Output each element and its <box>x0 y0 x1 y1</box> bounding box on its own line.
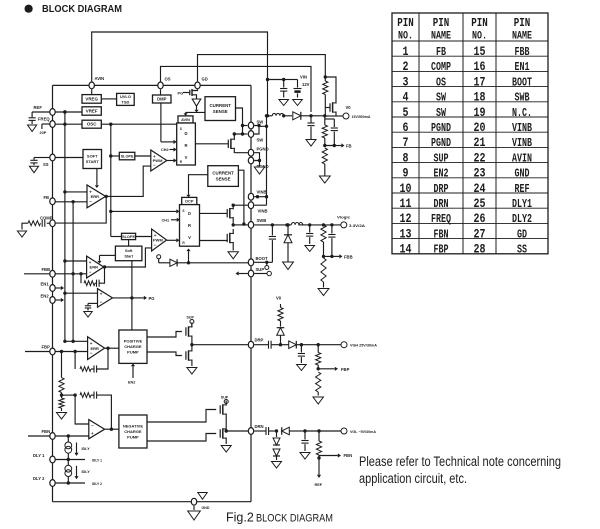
terminal boot tp <box>265 262 269 269</box>
wire ERR1 out <box>105 195 108 198</box>
svg-text:27: 27 <box>474 226 486 241</box>
svg-text:GD: GD <box>517 227 527 241</box>
inductor L1 <box>268 113 284 115</box>
wire M2 drain <box>232 204 249 207</box>
pin VGL <box>341 428 376 434</box>
svg-text:VREF: VREF <box>86 109 98 114</box>
svg-text:GND: GND <box>515 167 530 181</box>
arrow FB tap <box>334 143 351 148</box>
pin DLY2 <box>33 476 55 486</box>
wire AVIN loop to VIN <box>92 32 268 81</box>
transistor M1 <box>228 135 234 153</box>
arrow PG label <box>132 296 155 301</box>
node SW ext <box>282 114 292 117</box>
transistor P-drv neg <box>220 401 226 419</box>
wire pump2 N gates <box>147 434 216 442</box>
wire ERR3 out <box>105 347 119 350</box>
arrow EN2 <box>56 298 65 302</box>
pin COMP <box>40 216 55 227</box>
label V0 source <box>276 296 282 301</box>
wire pump2 gnd <box>225 443 227 445</box>
svg-text:21: 21 <box>474 135 486 150</box>
svg-text:16: 16 <box>474 59 486 74</box>
wire ramp to DRV2 <box>111 209 180 213</box>
block SOFT START <box>83 150 102 169</box>
svg-text:9: 9 <box>403 166 409 181</box>
svg-text:NO.: NO. <box>398 30 413 42</box>
wire FBN ext <box>28 435 50 437</box>
resistor RD1 <box>59 378 64 393</box>
wire M1 drain <box>233 132 243 135</box>
svg-text:EN1: EN1 <box>41 281 50 286</box>
label VIN 12V <box>300 74 310 87</box>
ground battery <box>293 100 303 106</box>
pin V0 <box>343 105 371 119</box>
wire OS to DMP <box>160 89 162 95</box>
ground VGL cap <box>300 453 310 460</box>
wire DMP down <box>160 103 162 142</box>
svg-text:application circuit, etc.: application circuit, etc. <box>359 471 467 486</box>
wire SS ext <box>34 157 50 159</box>
ground pump2 <box>221 446 231 453</box>
svg-text:AVIN: AVIN <box>512 151 532 165</box>
svg-text:18: 18 <box>474 90 486 105</box>
svg-text:FBB: FBB <box>42 267 51 272</box>
svg-text:BLOCK DIAGRAM: BLOCK DIAGRAM <box>256 513 333 525</box>
arrow FBB tap <box>332 254 353 259</box>
block DRV2 <box>180 205 200 247</box>
svg-text:SS: SS <box>517 243 527 257</box>
svg-text:VINB: VINB <box>258 209 268 214</box>
op-amp ERR1 <box>87 185 106 208</box>
svg-text:11: 11 <box>400 196 412 211</box>
capacitor FB speedup <box>325 119 338 147</box>
feedback NEG RC <box>73 392 113 431</box>
svg-text:EN2: EN2 <box>434 167 449 181</box>
wire DLY1 <box>56 458 103 463</box>
resistor COMP <box>22 221 41 230</box>
svg-text:12V: 12V <box>302 82 310 87</box>
svg-text:−: − <box>90 351 93 356</box>
svg-text:6: 6 <box>403 120 409 135</box>
transistor PG <box>178 89 198 99</box>
svg-text:SUP: SUP <box>434 151 449 165</box>
pin SWB <box>248 218 266 229</box>
op-amp PWM2 <box>152 229 167 251</box>
block OCP <box>182 197 197 204</box>
transistor N-drv pos <box>186 341 192 365</box>
svg-text:DLY 1: DLY 1 <box>33 453 45 458</box>
svg-text:DRN: DRN <box>434 197 449 211</box>
wire REF to VREF <box>56 110 83 113</box>
svg-text:SW: SW <box>436 91 447 105</box>
svg-text:−: − <box>100 299 103 304</box>
svg-text:28: 28 <box>474 242 486 257</box>
svg-text:REF: REF <box>515 182 530 196</box>
wire VINB riser <box>254 125 268 206</box>
svg-text:REF: REF <box>34 105 43 110</box>
block NEGATIVE CHARGE PUMP <box>119 415 147 448</box>
svg-text:FBN: FBN <box>434 227 449 241</box>
pin Vlogic <box>337 214 365 228</box>
svg-text:SENSE: SENSE <box>216 177 231 182</box>
svg-text:FBP: FBP <box>434 243 449 257</box>
block VREG <box>82 95 101 104</box>
svg-text:CHARGE: CHARGE <box>124 344 142 349</box>
svg-text:−: − <box>154 242 157 247</box>
arrow DMP to DRV1 <box>161 140 177 144</box>
pin SS <box>43 154 55 167</box>
svg-text:DLY 2: DLY 2 <box>33 476 45 481</box>
svg-text:DRP: DRP <box>255 338 264 343</box>
resistor FBP lower <box>316 372 321 396</box>
svg-text:FBB: FBB <box>344 254 353 259</box>
svg-text:SWB: SWB <box>257 218 267 223</box>
svg-text:ERR: ERR <box>91 194 100 199</box>
svg-text:IDLY 2: IDLY 2 <box>92 482 102 486</box>
wire FBP ext <box>25 351 50 353</box>
svg-text:EN1: EN1 <box>515 60 530 74</box>
svg-text:EN2: EN2 <box>128 381 135 385</box>
pin EN2 <box>41 293 56 303</box>
svg-text:FB: FB <box>346 144 352 149</box>
wire pump P gates <box>147 332 182 338</box>
svg-text:PUMP: PUMP <box>127 435 139 440</box>
wire SWB int <box>233 224 248 226</box>
wire DRV2 gate M3 <box>200 240 228 242</box>
resistor FBP upper <box>316 345 321 371</box>
svg-text:Fig.2: Fig.2 <box>226 511 254 525</box>
svg-text:8: 8 <box>403 150 409 165</box>
svg-text:NO.: NO. <box>472 30 487 42</box>
svg-text:CH2: CH2 <box>161 148 169 152</box>
svg-text:FREQ: FREQ <box>38 117 50 122</box>
wire CS1 right to SW <box>236 108 248 136</box>
arrow into AVIN box <box>194 106 198 112</box>
wire FBB ext <box>24 273 50 275</box>
svg-text:15V/500mA: 15V/500mA <box>352 115 371 119</box>
ground Vlogic cap <box>305 246 315 252</box>
pin SW1 <box>248 119 263 129</box>
svg-text:VINB: VINB <box>512 121 532 135</box>
capacitor bootstrap <box>269 225 276 262</box>
svg-text:DMP: DMP <box>157 96 167 101</box>
wire M3 source <box>232 247 234 251</box>
block AVIN drv <box>178 116 193 123</box>
pin BOOT <box>248 256 268 266</box>
wire COMP ext <box>47 222 50 224</box>
pin table <box>392 13 548 257</box>
svg-text:PG: PG <box>149 296 155 301</box>
pin VGH <box>341 342 377 348</box>
svg-text:7: 7 <box>403 135 409 150</box>
svg-text:25: 25 <box>474 196 486 211</box>
transistor N-drv neg <box>220 419 226 443</box>
svg-text:OCP: OCP <box>185 198 194 203</box>
arrow FBN tap <box>319 453 352 458</box>
wire SWB rail <box>254 223 291 226</box>
wire pgcmp plus <box>65 292 98 294</box>
svg-text:CHARGE: CHARGE <box>124 429 142 434</box>
ground D2 <box>283 262 294 270</box>
svg-text:CURRENT: CURRENT <box>212 171 234 176</box>
terminal SUP pump2 <box>221 396 229 405</box>
diode D2 freewheel <box>284 223 292 261</box>
label CH2 arrow <box>161 147 177 152</box>
svg-text:3: 3 <box>403 74 409 89</box>
inductor L2 <box>291 223 309 225</box>
svg-text:Soft: Soft <box>125 249 133 253</box>
wire pwm2 out <box>167 238 180 242</box>
svg-text:N.C.: N.C. <box>512 106 532 120</box>
svg-text:BOOT: BOOT <box>512 75 532 89</box>
wire PG out <box>113 296 134 299</box>
svg-text:SUP: SUP <box>187 316 195 320</box>
svg-text:EN2: EN2 <box>41 293 50 298</box>
transistor Q1 pass PMOS <box>325 99 336 117</box>
svg-text:FB: FB <box>436 45 446 59</box>
node DRP junction <box>277 343 289 346</box>
resistor RD2 <box>59 398 64 411</box>
svg-text:AVIN: AVIN <box>95 76 105 81</box>
resistor VGH charge <box>278 304 283 327</box>
svg-text:23: 23 <box>474 166 486 181</box>
block DRV1 <box>177 123 196 165</box>
arrow EN2 to pump <box>128 363 135 384</box>
wire Q1 to V0 <box>325 115 343 118</box>
resistor FBB upper <box>321 225 326 258</box>
svg-text:DRN: DRN <box>255 424 264 429</box>
block UVLO TSD <box>117 93 135 105</box>
svg-text:20P: 20P <box>40 131 47 135</box>
svg-text:TSD: TSD <box>121 100 129 105</box>
battery VIN 12V <box>284 80 302 98</box>
block SLOPE <box>119 152 135 160</box>
ground pgcmp cap <box>84 312 92 318</box>
svg-text:26: 26 <box>474 211 486 226</box>
svg-text:START: START <box>86 159 100 164</box>
svg-text:PGND: PGND <box>431 121 451 135</box>
wire ERR4 out <box>105 428 119 430</box>
pin DRP <box>248 338 263 348</box>
pin PGND2 <box>248 157 268 169</box>
wire VREG-UVLO <box>101 98 116 100</box>
wire pump N gates <box>147 352 182 356</box>
diode D7 boot <box>170 259 248 266</box>
capacitor pgcmp <box>85 303 98 310</box>
wire VGL rail <box>305 429 341 432</box>
svg-text:3.3V/2A: 3.3V/2A <box>349 224 365 228</box>
node RD tap <box>60 393 75 399</box>
pin DLY1 <box>33 453 55 463</box>
caption Fig.2 <box>226 511 333 525</box>
svg-text:VGL −5V/30mA: VGL −5V/30mA <box>350 430 376 434</box>
pin SUP <box>248 267 264 277</box>
ground SS cap <box>29 166 38 173</box>
wire gate branch <box>325 77 336 99</box>
wire slope2-pwm2 <box>136 236 152 238</box>
svg-text:V0: V0 <box>346 105 352 110</box>
ground REF cap <box>28 125 37 132</box>
svg-text:R: R <box>184 143 187 148</box>
ground PGND <box>254 167 264 174</box>
svg-text:ERR: ERR <box>90 265 99 270</box>
svg-text:GD: GD <box>202 77 208 82</box>
node VIN rail top <box>266 78 286 81</box>
svg-text:SW: SW <box>257 138 264 143</box>
svg-text:10: 10 <box>400 181 412 196</box>
arrow to REF <box>315 458 323 487</box>
wire FBP to ERR3 <box>56 350 88 353</box>
svg-text:−: − <box>89 269 92 274</box>
svg-text:S: S <box>180 127 182 131</box>
pin FBB <box>42 267 56 277</box>
node pump2 out <box>225 429 249 432</box>
wire FBB to ERR2 <box>56 272 87 275</box>
svg-text:D: D <box>184 131 187 136</box>
svg-text:SOFT: SOFT <box>87 154 98 159</box>
wire pwm1 out <box>167 158 177 162</box>
pin DRN <box>248 424 263 434</box>
arrow EN1 <box>56 286 65 290</box>
diode D3 up <box>277 328 285 345</box>
svg-text:VINB: VINB <box>257 190 267 195</box>
wire slope-pwm1 <box>135 155 151 157</box>
capacitor VIN bypass <box>280 80 287 98</box>
ground FB divider <box>319 176 330 183</box>
svg-text:PWM: PWM <box>153 238 163 243</box>
svg-text:17: 17 <box>474 74 486 89</box>
block SLOPE2 <box>122 233 136 239</box>
block VREF <box>82 107 101 115</box>
node V0 rail <box>309 114 326 117</box>
svg-text:PIN: PIN <box>471 16 488 30</box>
svg-text:SW: SW <box>436 106 447 120</box>
wire CS2 left to OCP <box>189 175 208 193</box>
wire CS2 right <box>238 170 248 226</box>
transistor M2 <box>227 204 233 222</box>
wire pump1 gnd <box>191 365 193 367</box>
wire ERR2 plus <box>65 260 87 262</box>
block OSC <box>82 120 101 128</box>
block CURRENT SENSE 1 <box>205 97 236 121</box>
svg-text:R: R <box>188 223 191 228</box>
rail ramp bus <box>109 124 112 236</box>
ground V0 cap <box>306 140 316 147</box>
pin OS <box>158 77 171 89</box>
wire FB to ERR1 <box>56 200 88 203</box>
svg-text:4: 4 <box>403 90 409 105</box>
svg-text:PGND: PGND <box>431 136 451 150</box>
wire DRV2 gate M2 <box>200 212 228 214</box>
svg-text:14: 14 <box>400 242 412 257</box>
svg-text:D: D <box>188 211 191 216</box>
svg-text:UVLO: UVLO <box>120 94 131 99</box>
svg-text:SENSE: SENSE <box>213 109 228 114</box>
svg-text:BLOCK DIAGRAM: BLOCK DIAGRAM <box>42 3 122 15</box>
svg-text:PIN: PIN <box>514 16 531 30</box>
wire M1 source <box>234 152 248 154</box>
svg-text:AVIN: AVIN <box>181 118 190 122</box>
wire softstart-slope <box>111 155 120 157</box>
resistor pull-up GD <box>323 75 328 116</box>
feedback ERR2 RC <box>81 267 105 287</box>
arrow FBP tap <box>318 367 349 372</box>
wire SW pins to ext node <box>254 114 268 134</box>
svg-text:15: 15 <box>474 44 486 59</box>
pin VINB1 <box>248 190 266 201</box>
svg-text:PIN: PIN <box>397 16 414 30</box>
svg-text:2: 2 <box>403 59 409 74</box>
wire pump2 P gates <box>147 410 216 423</box>
svg-text:20: 20 <box>474 120 486 135</box>
svg-text:FREQ: FREQ <box>431 212 451 226</box>
rail REF bus <box>63 110 66 343</box>
wire VIN rail to inductor <box>266 80 269 118</box>
pin VINB2 <box>248 202 267 214</box>
block POSITIVE CHARGE PUMP <box>119 330 147 363</box>
svg-text:BOOT: BOOT <box>256 256 269 261</box>
capacitor FBB speedup <box>324 225 336 258</box>
pin EN1 <box>41 281 56 291</box>
rail FB bus <box>71 202 74 343</box>
pin GND bottom <box>191 498 196 510</box>
svg-text:SLOPE: SLOPE <box>121 154 134 158</box>
wire ss2 to PG node <box>131 261 133 330</box>
pin FREQ <box>38 117 55 128</box>
pin SW2 <box>248 131 263 143</box>
wire VGH rail <box>301 343 341 346</box>
wire PGND to ground <box>254 153 261 166</box>
svg-text:IDLY 1: IDLY 1 <box>92 458 102 462</box>
svg-text:SLOPE: SLOPE <box>122 235 135 239</box>
resistor FBN ext <box>316 431 321 460</box>
ground M3 <box>228 252 238 259</box>
svg-text:NEGATIVE: NEGATIVE <box>123 423 143 428</box>
svg-text:1: 1 <box>403 44 409 59</box>
wire SUP external <box>254 271 271 275</box>
section title BLOCK DIAGRAM <box>42 3 122 15</box>
wire OS up-over <box>161 66 312 112</box>
op-amp PGCMP <box>98 289 113 308</box>
svg-text:NAME: NAME <box>431 30 451 42</box>
svg-text:Please refer to Technical note: Please refer to Technical note concernin… <box>359 454 561 469</box>
section bullet <box>25 5 33 13</box>
svg-text:Start: Start <box>124 254 133 258</box>
transistor M3 <box>227 229 233 247</box>
svg-text:V: V <box>185 155 188 160</box>
svg-text:5: 5 <box>403 105 409 120</box>
op-amp ERR3 <box>88 337 105 360</box>
svg-text:FBN: FBN <box>344 453 353 458</box>
svg-text:FBB: FBB <box>515 45 530 59</box>
svg-text:SUP: SUP <box>221 396 229 400</box>
svg-text:12: 12 <box>400 211 412 226</box>
svg-text:−: − <box>91 423 94 428</box>
block Soft Start 2 <box>115 246 141 261</box>
wire REF ext <box>32 111 49 113</box>
arrow SUP internal <box>236 271 248 275</box>
pin REF <box>34 105 56 115</box>
IC boundary box <box>53 85 252 501</box>
svg-text:FB: FB <box>44 195 50 200</box>
wire DLY2 <box>56 481 103 486</box>
resistor FB lower <box>322 148 327 176</box>
ground RD <box>57 413 67 420</box>
svg-text:VIN: VIN <box>300 74 307 79</box>
svg-text:−: − <box>89 199 92 204</box>
pin FB <box>44 195 56 205</box>
